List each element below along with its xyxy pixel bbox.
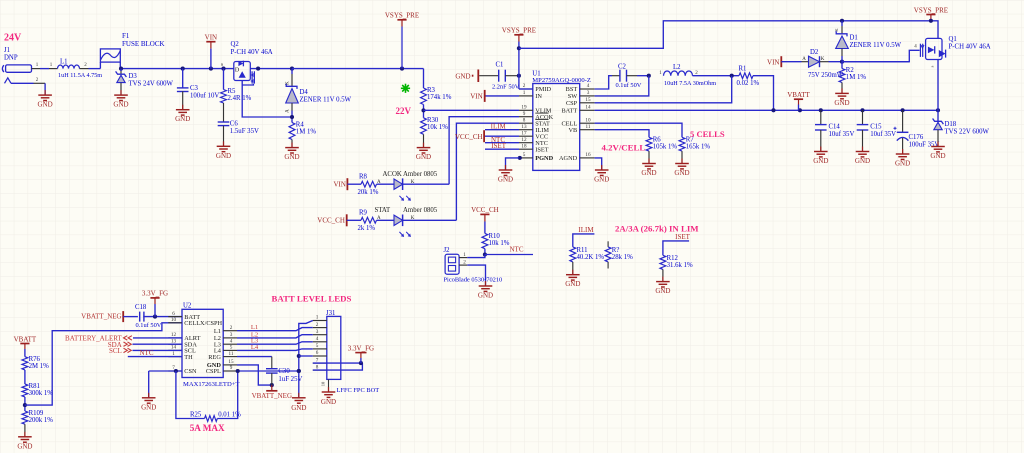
- svg-text:VB: VB: [568, 127, 577, 134]
- svg-text:12: 12: [171, 332, 177, 338]
- svg-text:VSYS_PRE: VSYS_PRE: [502, 27, 536, 35]
- svg-text:SCL: SCL: [109, 347, 122, 355]
- svg-text:22V: 22V: [396, 106, 412, 116]
- svg-text:C6: C6: [230, 120, 239, 127]
- svg-text:D18: D18: [945, 121, 957, 128]
- svg-text:10uf 35V: 10uf 35V: [870, 131, 896, 138]
- svg-text:11: 11: [229, 351, 234, 357]
- svg-text:PGND: PGND: [535, 155, 553, 162]
- svg-text:GND: GND: [855, 157, 870, 165]
- svg-text:15: 15: [228, 359, 234, 365]
- svg-text:VBATT: VBATT: [787, 91, 810, 99]
- svg-text:4.2V/CELL: 4.2V/CELL: [602, 143, 646, 153]
- svg-text:19: 19: [521, 105, 527, 111]
- svg-text:MP2759AGQ-0000-Z: MP2759AGQ-0000-Z: [532, 77, 591, 84]
- svg-text:1M 1%: 1M 1%: [846, 74, 867, 81]
- svg-text:C176: C176: [909, 134, 924, 141]
- svg-text:VCC_CH: VCC_CH: [471, 206, 499, 214]
- svg-text:VSYS_PRE: VSYS_PRE: [914, 6, 948, 14]
- svg-text:7: 7: [316, 357, 319, 363]
- svg-text:TH: TH: [184, 354, 193, 361]
- svg-text:Q2: Q2: [231, 41, 240, 48]
- svg-text:GND: GND: [930, 152, 945, 160]
- svg-text:ILIM: ILIM: [578, 226, 594, 234]
- svg-text:R8: R8: [359, 174, 368, 181]
- svg-text:R1: R1: [739, 66, 747, 73]
- svg-text:165k 1%: 165k 1%: [686, 144, 711, 151]
- svg-text:GND: GND: [175, 115, 190, 123]
- svg-text:12: 12: [521, 137, 527, 143]
- svg-text:R2: R2: [846, 67, 855, 74]
- svg-text:C3: C3: [190, 85, 199, 92]
- svg-text:GND: GND: [594, 176, 609, 184]
- svg-text:10uH 7.5A 30mOhm: 10uH 7.5A 30mOhm: [664, 80, 716, 87]
- svg-text:IN: IN: [535, 93, 542, 100]
- svg-text:CSN: CSN: [184, 368, 197, 375]
- svg-text:174k 1%: 174k 1%: [427, 94, 452, 101]
- svg-text:2M 1%: 2M 1%: [29, 363, 50, 370]
- svg-text:8: 8: [523, 117, 526, 123]
- svg-text:R3: R3: [427, 87, 436, 94]
- svg-text:GND: GND: [17, 442, 32, 450]
- svg-text:LFFC FPC BOT: LFFC FPC BOT: [337, 387, 380, 394]
- svg-text:GND: GND: [478, 292, 493, 300]
- svg-text:GND: GND: [321, 398, 336, 406]
- svg-text:GND: GND: [641, 169, 656, 177]
- svg-text:R5: R5: [228, 88, 237, 95]
- svg-text:BATT LEVEL LEDS: BATT LEVEL LEDS: [272, 294, 352, 304]
- svg-text:2: 2: [316, 322, 319, 328]
- svg-text:VIN: VIN: [470, 93, 482, 101]
- svg-text:D1: D1: [850, 34, 858, 41]
- svg-text:200k 1%: 200k 1%: [29, 417, 54, 424]
- svg-text:10uf 35V: 10uf 35V: [829, 131, 855, 138]
- svg-text:14: 14: [585, 105, 591, 111]
- svg-text:VBATT: VBATT: [14, 335, 37, 343]
- svg-text:R11: R11: [577, 247, 588, 254]
- svg-text:300k 1%: 300k 1%: [29, 390, 54, 397]
- svg-text:3: 3: [230, 332, 233, 338]
- svg-text:GND: GND: [284, 153, 299, 161]
- svg-text:PicoBlade 0530-70210: PicoBlade 0530-70210: [444, 277, 503, 284]
- svg-text:FUSE BLOCK: FUSE BLOCK: [122, 40, 165, 48]
- svg-text:CSP: CSP: [566, 100, 578, 107]
- svg-text:NTC: NTC: [510, 246, 524, 254]
- svg-text:L2: L2: [673, 64, 681, 71]
- svg-text:13: 13: [171, 338, 177, 344]
- svg-text:GND: GND: [38, 101, 53, 109]
- svg-text:1: 1: [172, 351, 175, 357]
- svg-text:11: 11: [586, 124, 591, 130]
- svg-text:P-CH 40V 46A: P-CH 40V 46A: [231, 49, 273, 56]
- svg-text:R10: R10: [489, 233, 501, 240]
- svg-text:GND: GND: [216, 152, 231, 160]
- svg-text:4: 4: [316, 336, 319, 342]
- svg-text:s: s: [930, 65, 935, 67]
- svg-text:U2: U2: [183, 302, 192, 309]
- svg-text:L4: L4: [251, 344, 259, 351]
- svg-text:VSYS_PRE: VSYS_PRE: [385, 12, 419, 20]
- svg-text:VBATT_NEG: VBATT_NEG: [81, 313, 121, 321]
- svg-text:10: 10: [585, 117, 591, 123]
- svg-text:VIN: VIN: [205, 34, 217, 42]
- svg-text:5: 5: [316, 343, 319, 349]
- svg-text:VCC_CH: VCC_CH: [317, 217, 345, 225]
- svg-text:C30: C30: [278, 368, 290, 375]
- svg-text:GND: GND: [141, 403, 156, 411]
- svg-text:GND: GND: [498, 176, 513, 184]
- svg-text:STAT: STAT: [375, 207, 392, 214]
- svg-text:2.2nF 50V: 2.2nF 50V: [492, 83, 520, 90]
- svg-text:1: 1: [316, 315, 319, 321]
- svg-text:GND: GND: [113, 101, 128, 109]
- svg-text:R81: R81: [29, 383, 40, 390]
- svg-text:MAX17263LETD+T: MAX17263LETD+T: [183, 381, 239, 388]
- svg-text:A: A: [286, 109, 291, 113]
- svg-text:R109: R109: [29, 410, 44, 417]
- svg-text:6: 6: [172, 311, 175, 317]
- svg-text:R30: R30: [427, 117, 439, 124]
- svg-text:3: 3: [316, 329, 319, 335]
- svg-text:2: 2: [230, 325, 233, 331]
- svg-text:GND: GND: [455, 73, 470, 81]
- svg-text:17: 17: [521, 130, 527, 136]
- svg-text:40.2K 1%: 40.2K 1%: [577, 254, 605, 261]
- svg-text:ISET: ISET: [675, 233, 691, 241]
- svg-text:D4: D4: [300, 89, 309, 96]
- svg-text:TVS 24V 600W: TVS 24V 600W: [129, 80, 174, 87]
- svg-text:VBATT_NEG: VBATT_NEG: [252, 392, 292, 400]
- svg-text:2.4R 1%: 2.4R 1%: [228, 95, 252, 102]
- svg-text:16: 16: [585, 152, 591, 158]
- svg-text:5: 5: [230, 345, 233, 351]
- svg-text:VIN: VIN: [333, 181, 345, 189]
- svg-text:ISET: ISET: [535, 146, 548, 153]
- svg-text:R12: R12: [667, 255, 679, 262]
- svg-text:GND: GND: [895, 160, 910, 168]
- svg-text:75V 250mW: 75V 250mW: [808, 72, 844, 79]
- svg-text:13: 13: [521, 124, 527, 130]
- svg-text:R6: R6: [653, 137, 662, 144]
- svg-text:1: 1: [523, 90, 526, 96]
- svg-text:CELLX/CSPH: CELLX/CSPH: [184, 320, 222, 327]
- svg-text:Amber 0805: Amber 0805: [403, 207, 438, 214]
- svg-text:15: 15: [585, 97, 591, 103]
- svg-text:10: 10: [171, 317, 177, 323]
- svg-text:10k 1%: 10k 1%: [489, 240, 510, 247]
- svg-text:0.1uf 50V: 0.1uf 50V: [616, 82, 642, 89]
- svg-text:R?: R?: [612, 247, 620, 254]
- svg-text:P-CH 40V 46A: P-CH 40V 46A: [949, 44, 991, 51]
- svg-text:31.6k 1%: 31.6k 1%: [667, 262, 693, 269]
- svg-text:CSPL: CSPL: [206, 368, 221, 375]
- svg-text:L1: L1: [251, 324, 258, 331]
- svg-text:100uF 35V: 100uF 35V: [909, 142, 940, 149]
- svg-text:ILIM: ILIM: [491, 123, 507, 131]
- svg-text:100uf 10V: 100uf 10V: [190, 93, 219, 100]
- svg-text:2A/3A (26.7k) IN LIM: 2A/3A (26.7k) IN LIM: [615, 224, 699, 234]
- svg-text:3: 3: [587, 90, 590, 96]
- svg-text:VIN: VIN: [767, 58, 779, 66]
- svg-text:10k 1%: 10k 1%: [427, 124, 448, 131]
- svg-text:2k 1%: 2k 1%: [358, 225, 376, 232]
- svg-text:6: 6: [316, 350, 319, 356]
- svg-text:0.1uf 50V: 0.1uf 50V: [136, 322, 162, 329]
- svg-text:5: 5: [523, 152, 526, 158]
- svg-text:R9: R9: [359, 210, 368, 217]
- svg-text:C15: C15: [870, 124, 882, 131]
- svg-text:DNP: DNP: [4, 55, 18, 62]
- svg-text:J1: J1: [4, 47, 10, 54]
- svg-text:3.3V_FG: 3.3V_FG: [348, 344, 374, 352]
- svg-text:Q1: Q1: [949, 36, 957, 43]
- svg-text:28k 1%: 28k 1%: [612, 254, 633, 261]
- svg-text:ISET: ISET: [491, 142, 507, 150]
- svg-text:1.5uF 35V: 1.5uF 35V: [230, 128, 259, 135]
- svg-text:J2: J2: [444, 247, 451, 254]
- svg-text:C18: C18: [135, 304, 147, 311]
- svg-text:GND: GND: [565, 280, 580, 288]
- svg-text:ACOK: ACOK: [383, 171, 402, 178]
- svg-text:C2: C2: [618, 63, 627, 70]
- svg-text:10: 10: [321, 381, 326, 386]
- svg-text:4: 4: [230, 338, 233, 344]
- svg-text:24V: 24V: [4, 33, 22, 44]
- svg-text:Amber 0805: Amber 0805: [403, 171, 438, 178]
- svg-text:14: 14: [171, 345, 177, 351]
- svg-text:GND: GND: [674, 169, 689, 177]
- svg-text:A: A: [802, 57, 806, 62]
- svg-text:D3: D3: [129, 73, 138, 80]
- svg-text:GND: GND: [416, 153, 431, 161]
- svg-text:R4: R4: [296, 122, 305, 129]
- svg-text:R76: R76: [29, 356, 41, 363]
- svg-text:VCC_CH: VCC_CH: [455, 133, 483, 141]
- svg-text:C1: C1: [496, 61, 504, 68]
- svg-text:GND: GND: [655, 287, 670, 295]
- svg-text:5A MAX: 5A MAX: [190, 423, 225, 433]
- svg-text:TVS 22V 600W: TVS 22V 600W: [945, 129, 990, 136]
- svg-text:105k 1%: 105k 1%: [653, 144, 678, 151]
- svg-text:18: 18: [521, 143, 527, 149]
- svg-text:REG: REG: [208, 354, 221, 361]
- svg-text:R25: R25: [190, 411, 202, 418]
- svg-text:BATT: BATT: [561, 108, 577, 115]
- svg-text:A: A: [377, 180, 381, 185]
- svg-text:C14: C14: [829, 124, 841, 131]
- svg-text:AGND: AGND: [559, 155, 578, 162]
- svg-text:8: 8: [316, 364, 319, 370]
- svg-text:A: A: [377, 216, 381, 221]
- svg-text:1M 1%: 1M 1%: [296, 129, 317, 136]
- svg-text:F1: F1: [122, 32, 130, 40]
- svg-text:ZENER 11V 0.5W: ZENER 11V 0.5W: [850, 42, 902, 49]
- svg-text:2: 2: [463, 259, 466, 265]
- svg-text:GND: GND: [813, 157, 828, 165]
- svg-text:1: 1: [463, 252, 466, 258]
- svg-text:D2: D2: [810, 49, 819, 56]
- svg-text:20k 1%: 20k 1%: [358, 189, 379, 196]
- svg-text:9: 9: [230, 365, 233, 371]
- svg-text:D: D: [235, 68, 240, 74]
- svg-text:2: 2: [523, 83, 526, 89]
- svg-text:4: 4: [587, 83, 590, 89]
- svg-text:0.02 1%: 0.02 1%: [737, 80, 760, 87]
- svg-text:1uH 11.5A 4.75m: 1uH 11.5A 4.75m: [58, 72, 102, 79]
- svg-text:5 CELLS: 5 CELLS: [690, 129, 725, 139]
- svg-text:L1: L1: [214, 328, 221, 335]
- svg-text:ZENER 11V 0.5W: ZENER 11V 0.5W: [300, 97, 352, 104]
- svg-text:GND: GND: [291, 404, 306, 412]
- svg-text:3.3V_FG: 3.3V_FG: [142, 290, 168, 298]
- svg-text:9: 9: [523, 111, 526, 117]
- svg-text:GND: GND: [834, 99, 849, 107]
